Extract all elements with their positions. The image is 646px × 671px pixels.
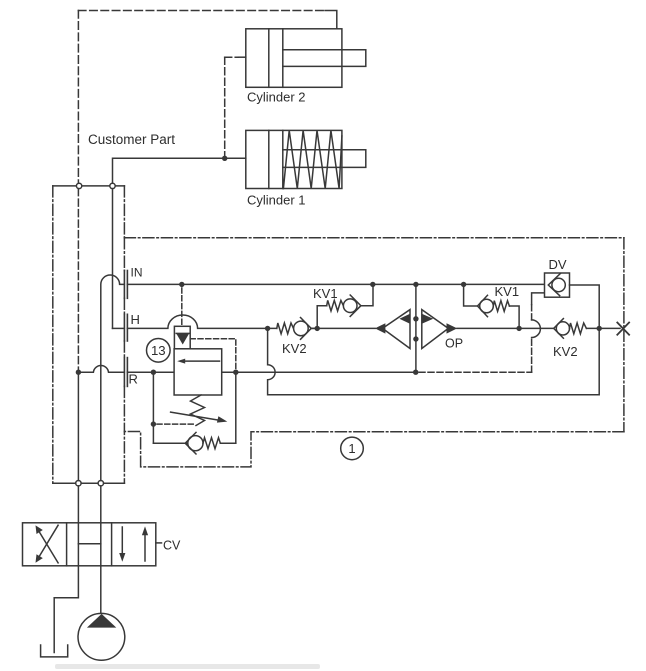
block 1 boundary right chain: [623, 238, 625, 432]
wire H line far right: [586, 327, 620, 329]
scan smudge bottom: [55, 664, 320, 669]
KV1 left spring: [327, 300, 344, 311]
node dot IN KV1R: [461, 282, 466, 287]
wire line to cylinder C1: [113, 158, 246, 183]
KV2 left seat: [301, 318, 312, 340]
wire to pump: [100, 566, 102, 614]
KV1 right seat: [478, 295, 488, 316]
wire cylinder C2 left port: [239, 56, 246, 58]
cylinder C1 body: [246, 130, 342, 188]
OP apex filled left: [375, 323, 386, 333]
svg-text:IN: IN: [131, 266, 143, 280]
wire supply lines through CV: [77, 486, 79, 566]
node dot R v13 right: [233, 370, 238, 375]
check valve KV1 left branch: [317, 306, 327, 329]
cylinder C2 rod: [283, 50, 366, 67]
valve 13 flow arrow: [181, 360, 220, 362]
node dot H KV1R: [516, 326, 521, 331]
OP left open triangle: [383, 310, 411, 349]
node dot R v13 left: [151, 370, 156, 375]
label circle 13: [147, 339, 171, 363]
block 1 boundary top chain: [124, 237, 624, 239]
wire v13 left vertical: [152, 372, 154, 443]
node dot IN KV1L: [370, 282, 375, 287]
svg-text:KV1: KV1: [313, 286, 338, 301]
valve 13 spring: [191, 395, 205, 426]
KV2 right spring: [570, 323, 587, 334]
wire R line main: [127, 371, 415, 373]
node junction dot cyl line: [222, 156, 227, 161]
check valve RV seat: [185, 432, 196, 454]
wire IN internal with jump arc: [101, 275, 125, 480]
wire solid into cylinder2 top: [325, 11, 337, 29]
wire DV out: [570, 285, 600, 328]
check valve DV box: [545, 273, 570, 297]
CV parallel arrows: [121, 527, 123, 556]
wire H internal vertical: [112, 189, 114, 329]
plug X at right: [617, 323, 629, 335]
wire v13 right vertical: [235, 372, 237, 443]
manifold block right edge upper: [123, 186, 125, 238]
KV1 left ball: [343, 299, 357, 313]
wire drain dashed internal: [77, 189, 79, 373]
node dot R OP bottom: [413, 370, 418, 375]
valve 13 body: [174, 349, 222, 395]
wire drain solid internal: [77, 372, 79, 480]
svg-text:OP: OP: [445, 337, 463, 351]
svg-text:CV: CV: [163, 539, 181, 553]
svg-text:13: 13: [151, 343, 166, 358]
wire H line right of OP: [457, 327, 554, 329]
wire customer dashed drop to junction: [224, 57, 226, 158]
node OP dot bottom: [413, 336, 418, 341]
wire H line with arc over valve13: [127, 315, 276, 328]
wire v13 bottom right: [220, 442, 236, 444]
wire R internal with jump arc: [78, 365, 124, 372]
check valve RV spring: [203, 438, 220, 449]
coupling circle bottom B: [98, 481, 103, 486]
cylinder C1 rod: [283, 150, 366, 168]
manifold block left edge: [52, 186, 54, 483]
node dot H DV out: [597, 326, 602, 331]
label circle 1: [341, 437, 364, 460]
OP right open triangle: [422, 310, 449, 349]
wire v13 pilot dash horizontal: [157, 423, 195, 425]
node dot IN pilot13: [179, 282, 184, 287]
manifold block top edge: [53, 185, 125, 187]
pump P1: [78, 613, 125, 660]
wire H internal horizontal: [113, 327, 125, 329]
wire KV1 right out: [509, 306, 519, 328]
svg-text:KV2: KV2: [553, 344, 578, 359]
check valve KV2 right seat: [554, 319, 564, 339]
node dot IN OP: [413, 282, 418, 287]
cylinder C2 piston: [268, 29, 270, 88]
wire pilot dashed vertical with bump to DV: [531, 338, 533, 373]
wire IN line main: [127, 283, 544, 285]
valve 13 pilot dashed L to R line: [190, 339, 236, 369]
node dot R drain: [76, 370, 81, 375]
KV2 left ball: [294, 321, 309, 336]
valve CV body: [23, 523, 156, 566]
KV1 left seat: [350, 295, 361, 316]
check valve KV1 right branch: [464, 284, 478, 306]
valve 13 poppet housing: [174, 326, 190, 349]
wire collector U line: [268, 328, 600, 394]
KV2 right ball: [556, 322, 569, 335]
node dot H KV1L: [315, 326, 320, 331]
OP small filled right: [422, 314, 433, 324]
svg-text:H: H: [131, 312, 140, 327]
cylinder C2 body: [246, 29, 342, 88]
coupling circle top A: [76, 183, 81, 188]
cylinder C1 spring: [283, 130, 342, 188]
wire KV2L to KV1L dot: [311, 327, 317, 329]
CV crossed arrows: [38, 525, 58, 558]
svg-text:Customer Part: Customer Part: [88, 132, 175, 147]
valve 13 poppet seat triangle: [176, 333, 189, 344]
wire R dashed extension: [419, 371, 532, 373]
DV seat: [548, 274, 560, 296]
manifold block bottom edge: [53, 482, 125, 484]
svg-text:R: R: [129, 372, 138, 387]
valve 13 adjust arrow: [171, 412, 222, 421]
check valve KV2 left spring: [277, 323, 294, 334]
coupling circle bottom A: [76, 481, 81, 486]
svg-text:DV: DV: [549, 257, 567, 272]
check valve RV ball: [188, 436, 203, 451]
svg-text:1: 1: [348, 441, 355, 456]
coupling circle top B: [110, 183, 115, 188]
svg-text:Cylinder 2: Cylinder 2: [247, 90, 306, 105]
block 1 boundary left chain: [123, 238, 125, 484]
wire customer dashed top: [78, 10, 325, 12]
shuttle OP vertical: [415, 284, 417, 372]
svg-text:KV1: KV1: [495, 284, 520, 299]
wire customer dashed vertical: [77, 11, 79, 184]
tank symbol: [41, 645, 68, 657]
KV1 right ball: [480, 299, 494, 313]
port H bars: [123, 314, 125, 341]
DV ball: [552, 278, 565, 291]
svg-text:KV2: KV2: [282, 341, 307, 356]
cylinder C1 piston: [268, 130, 270, 188]
OP apex filled right: [447, 323, 458, 333]
port IN bars: [123, 271, 125, 299]
node dot pilot: [151, 421, 156, 426]
wire to tank: [54, 566, 78, 653]
valve 13 pilot dash from IN: [181, 288, 183, 325]
block 1 boundary bottom chain with notch: [124, 432, 624, 467]
node dot H collector: [265, 326, 270, 331]
OP small filled left: [399, 314, 410, 324]
wire H line mid: [311, 327, 375, 329]
node OP dot top: [413, 316, 418, 321]
CV middle connector: [78, 543, 100, 545]
svg-text:Cylinder 1: Cylinder 1: [247, 193, 306, 208]
CV stub: [156, 542, 162, 544]
wire KV1 left out: [361, 284, 373, 305]
port R bars: [123, 358, 125, 387]
KV1 right spring: [493, 301, 509, 312]
wire v13 bottom line: [153, 442, 188, 444]
